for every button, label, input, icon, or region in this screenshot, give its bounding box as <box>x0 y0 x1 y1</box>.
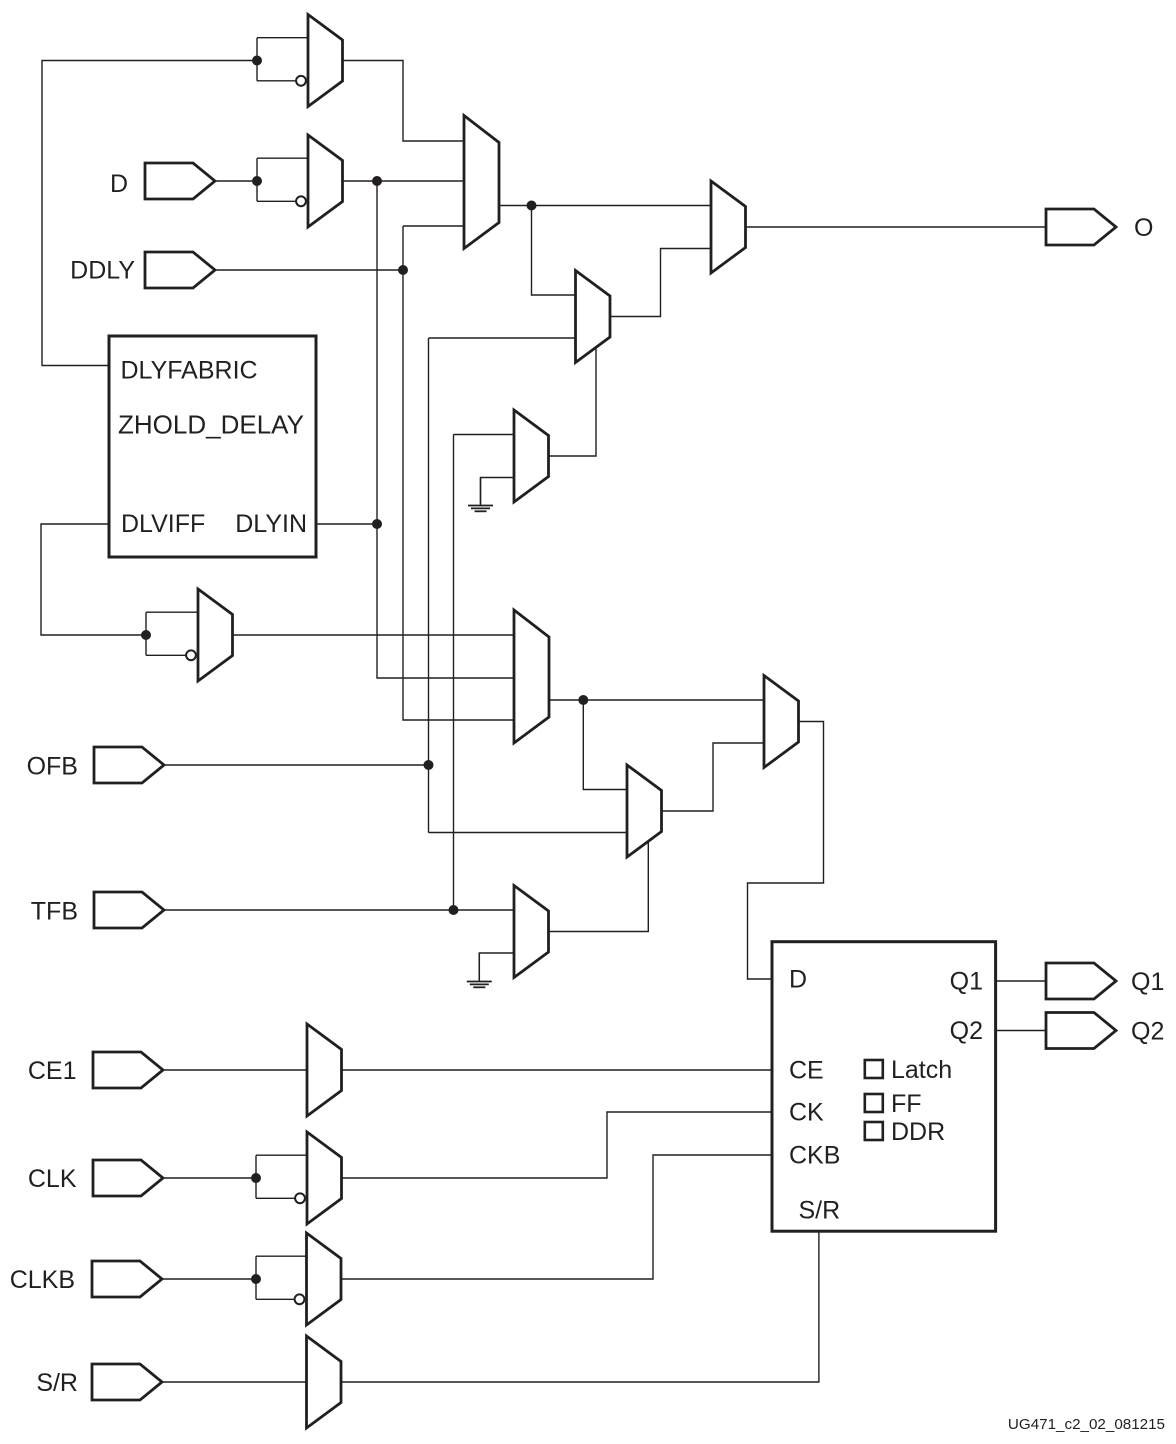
wire OFB vertical rail <box>428 338 430 833</box>
svg-text:ZHOLD_DELAY: ZHOLD_DELAY <box>118 410 304 440</box>
svg-text:DDLY: DDLY <box>70 257 135 285</box>
junction dot mux M3 output branch <box>527 201 537 211</box>
wire mux M6 fan vertical <box>145 612 147 655</box>
input pad CLKB <box>92 1261 162 1297</box>
output pad Q1 <box>1046 963 1116 999</box>
wire ground G2 to mux M10 input 2 <box>479 953 514 980</box>
wire mux M10 output to mux M9 select <box>549 841 648 932</box>
wire mux M2 inverted input to bubble <box>257 200 296 202</box>
wire CE1 net: arrow through mux M12 to flip-flop CE pin <box>163 1069 772 1071</box>
input pad DDLY <box>145 252 215 288</box>
wire ground G1 to mux M7 input 2 <box>481 478 515 505</box>
wire DLVIFF net: ZHOLD_DELAY pin to mux M6 fan <box>41 524 146 635</box>
flip-flop U1 (Latch/FF/DDR block) <box>772 942 996 1231</box>
wire mux M14 output to flip-flop CKB pin <box>342 1155 773 1279</box>
checkbox FF option <box>865 1094 883 1112</box>
wire ZHOLD_DELAY DLYIN pin to vertical <box>316 523 377 525</box>
svg-text:DLYFABRIC: DLYFABRIC <box>121 357 258 385</box>
svg-text:Q2: Q2 <box>950 1017 983 1045</box>
wire mux M1 fan vertical <box>256 38 258 81</box>
svg-text:O: O <box>1134 214 1153 242</box>
wire mux M2 output to mux M3 input 2 <box>343 180 464 182</box>
junction dot D net fan <box>252 176 262 186</box>
svg-text:DLYIN: DLYIN <box>235 510 307 538</box>
junction dot CLKB fan <box>251 1274 261 1284</box>
mux M12 (CE1 mux) <box>307 1024 342 1116</box>
svg-text:Latch: Latch <box>891 1056 952 1084</box>
mux M8 (lower 3:1 mux) <box>514 610 549 743</box>
wire mux M3 output to mux M5 input 1 <box>499 205 711 207</box>
svg-text:D: D <box>789 966 807 994</box>
svg-text:OFB: OFB <box>27 753 78 781</box>
mux M7 (TFB/GND select mux) <box>514 410 549 502</box>
wire CLKB net: arrow tip to fan dot <box>163 1278 256 1280</box>
junction dot mux M1 input fan <box>252 56 262 66</box>
svg-text:Q1: Q1 <box>1131 968 1164 996</box>
wire mux M13 output to flip-flop CK pin <box>342 1112 772 1178</box>
input pad CE1 <box>93 1052 163 1088</box>
wire mux M8 output branch to mux M9 input 1 <box>583 700 627 790</box>
wire mux M4 output to mux M5 input 2 <box>611 249 712 317</box>
wire S/R net: arrow through mux M15 to flip-flop S/R pin <box>163 1231 819 1382</box>
wire net D-delayed vertical to DLYIN and mux M8 input 2 <box>377 181 514 678</box>
mux M4 (feedback mux) <box>576 271 611 363</box>
svg-text:UG471_c2_02_081215: UG471_c2_02_081215 <box>1008 1416 1165 1433</box>
mux M1 (top D-inversion mux) <box>308 15 343 107</box>
svg-text:CLK: CLK <box>28 1165 77 1193</box>
wire mux M1 inverted input to bubble <box>257 80 296 82</box>
mux M9 (combine mux) <box>627 765 662 857</box>
mux M13 (CLK inversion mux) <box>307 1132 342 1224</box>
svg-text:S/R: S/R <box>36 1369 78 1397</box>
wire mux M9 output to mux M11 input 2 <box>662 743 764 811</box>
mux M14 (CLKB inversion mux) <box>307 1233 342 1325</box>
wire mux M6 output to mux M8 input 1 <box>232 634 514 636</box>
wire mux M14 inverted input to bubble <box>256 1298 295 1300</box>
wire mux M5 output to O pad <box>746 226 1046 228</box>
svg-text:D: D <box>110 170 128 198</box>
mux M11 (D-path mux to flip-flop) <box>764 676 799 768</box>
svg-text:CKB: CKB <box>789 1142 840 1170</box>
wire TFB vertical to mux M7 input 1 <box>453 435 455 911</box>
wire mux M2 direct input <box>257 157 309 159</box>
junction dot mux M2 output / DLYIN branch <box>372 176 382 186</box>
svg-text:Q1: Q1 <box>950 968 983 996</box>
input pad TFB <box>94 892 164 928</box>
svg-text:CE1: CE1 <box>28 1057 77 1085</box>
input pad D <box>145 163 215 199</box>
junction dot DLVIFF fan at mux M6 <box>141 630 151 640</box>
svg-text:CK: CK <box>789 1099 824 1127</box>
junction dot OFB branch <box>424 760 434 770</box>
svg-text:S/R: S/R <box>799 1197 841 1225</box>
junction dot TFB branch <box>449 905 459 915</box>
junction dot mux M8 output branch <box>578 695 588 705</box>
wire DLYFABRIC net: mux M1 input feed from left rail <box>42 61 257 366</box>
wire CLK net: arrow tip to fan dot <box>163 1177 256 1179</box>
checkbox Latch option <box>865 1060 883 1078</box>
wire flip-flop Q1 pin to Q1 pad <box>996 980 1046 982</box>
wire mux M3 output branch down to mux M4 input 1 <box>532 206 576 296</box>
wire TFB net: arrow tip to mux M10 input 1 <box>164 909 514 911</box>
input pad CLK <box>93 1160 163 1196</box>
wire mux M11 output to flip-flop D pin <box>748 722 824 980</box>
ground G1 <box>468 478 493 512</box>
inverter bubble on mux M14 <box>295 1294 305 1304</box>
ground G2 <box>467 953 492 987</box>
wire mux M7 output to mux M4 select <box>549 347 596 456</box>
wire OFB branch to mux M9 input 2 <box>429 832 628 834</box>
input pad S/R <box>92 1364 162 1400</box>
output pad Q2 <box>1046 1013 1116 1049</box>
wire DDLY net: arrow tip to junction <box>215 269 403 271</box>
wire DDLY branch into mux M3 input 3 <box>403 225 464 227</box>
wire TFB branch into mux M7 <box>454 434 515 436</box>
wire D net: arrow tip to fan dot <box>215 180 257 182</box>
inverter bubble on mux M1 <box>296 76 306 86</box>
svg-text:CE: CE <box>789 1057 824 1085</box>
wire mux M14 fan vertical <box>255 1256 257 1299</box>
wire flip-flop Q2 pin to Q2 pad <box>996 1030 1046 1032</box>
delay block ZHOLD_DELAY <box>109 336 316 557</box>
wire mux M6 inverted input to bubble <box>146 654 186 656</box>
wire mux M13 inverted input to bubble <box>256 1197 295 1199</box>
wire mux M2 fan vertical <box>256 158 258 201</box>
svg-text:DDR: DDR <box>891 1118 945 1146</box>
inverter bubble on mux M6 <box>186 650 196 660</box>
wire mux M13 fan vertical <box>255 1155 257 1198</box>
wire OFB branch to mux M4 input 2 <box>429 337 576 339</box>
svg-text:FF: FF <box>891 1090 922 1118</box>
mux M3 (4:1 input select mux) <box>464 116 499 249</box>
mux M15 (S/R mux) <box>307 1336 342 1428</box>
junction dot CLK fan <box>251 1173 261 1183</box>
svg-text:CLKB: CLKB <box>10 1266 75 1294</box>
mux M6 (DLVIFF inversion mux) <box>198 589 233 681</box>
mux M10 (TFB/GND lower mux) <box>514 886 549 978</box>
wire mux M6 direct input <box>146 611 199 613</box>
svg-text:TFB: TFB <box>31 898 78 926</box>
junction dot DDLY branch <box>398 265 408 275</box>
mux M5 (output mux to O) <box>711 181 746 273</box>
output pad O <box>1046 209 1116 245</box>
wire DDLY vertical to mux M3 input 3 and mux M8 input 3 <box>403 226 514 720</box>
inverter bubble on mux M13 <box>295 1193 305 1203</box>
input pad OFB <box>94 747 164 783</box>
inverter bubble on mux M2 <box>296 196 306 206</box>
wire mux M1 output to mux M3 input 1 <box>342 61 464 142</box>
checkbox DDR option <box>865 1122 883 1140</box>
junction dot DLYIN tap <box>372 519 382 529</box>
svg-text:DLVIFF: DLVIFF <box>121 510 205 538</box>
wire OFB net: arrow tip to junction <box>164 764 429 766</box>
svg-text:Q2: Q2 <box>1131 1018 1164 1046</box>
wire mux M8 output to mux M11 input 1 <box>549 699 764 701</box>
wire mux M14 direct input <box>256 1255 308 1257</box>
wire mux M1 direct input <box>257 37 309 39</box>
wire mux M13 direct input <box>256 1154 308 1156</box>
mux M2 (D-inversion mux) <box>308 135 343 227</box>
